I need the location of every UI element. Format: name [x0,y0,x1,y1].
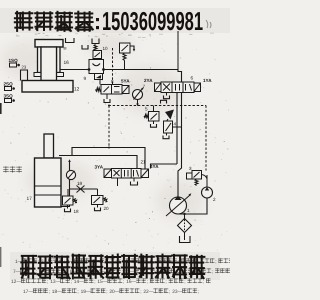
suction manifold [178,198,207,214]
check valve of 9 [95,74,103,80]
svg-text:18—: 18— [52,289,62,295]
filter suction line [184,233,186,241]
wire 5 pilot up [153,106,155,112]
wire ejector bottom port [61,161,70,207]
svg-text:;: ; [165,280,166,285]
valve 3 spring [195,179,198,186]
ad text top: lianxi dianhua [16,12,33,14]
wire jog down to valve 6 [178,70,182,83]
pump 2 [206,175,208,187]
svg-text:7—: 7— [13,269,21,275]
svg-text:10: 10 [103,46,109,51]
cylinder 16 right foot [57,73,64,77]
svg-text:;: ; [212,270,213,275]
stop block 23 [21,70,28,81]
svg-text:15036099981: 15036099981 [102,6,203,36]
svg-text:19—: 19— [81,289,91,295]
ad text bottom: company name [22,255,36,257]
valve 18 tank [67,205,69,209]
valve 6 drain tank [166,93,168,96]
valve 3 outlet hook [202,175,208,179]
wire 9 to valve 8 [99,80,101,85]
dashed pilot line horizontal [109,105,207,107]
svg-text:;: ; [106,290,107,295]
pump 1 variable [170,197,187,214]
ejector cylinder 17 body [35,158,62,207]
valve 21 left drain [117,178,119,186]
valve 6 body [161,82,194,93]
svg-text:8: 8 [111,79,114,84]
svg-text:1SQ: 1SQ [9,58,19,63]
cylinder 16 ram [41,47,57,81]
svg-text:2SQ: 2SQ [4,82,14,87]
filter [183,213,185,215]
svg-text:1YA: 1YA [203,78,212,83]
node main line right [102,68,105,71]
svg-text:17—: 17— [23,289,33,295]
svg-text:20: 20 [104,206,110,211]
svg-text:21: 21 [141,160,147,165]
node main line left [88,68,91,71]
svg-text:;: ; [169,290,170,295]
wire 11 to main [124,61,126,70]
valve 4 body [164,121,173,133]
valve 21 right solenoid [141,169,149,178]
svg-text:;: ; [71,280,72,285]
gauge 7 [133,90,143,100]
wire line1 to valve 21 [72,148,145,169]
svg-text:14—: 14— [74,279,84,285]
svg-text:23—: 23— [172,289,182,295]
svg-text:2YA: 2YA [144,78,153,83]
svg-text:4: 4 [174,122,177,127]
colon [96,18,99,21]
svg-text:15—: 15— [97,279,107,285]
valve 4 drain tank [166,133,168,136]
valve 8 spring [96,88,102,91]
valve 10 spring [94,45,97,51]
svg-text:16: 16 [64,60,70,66]
wire main press line [60,69,178,71]
svg-text:5YA: 5YA [121,79,130,84]
svg-text:16—: 16— [126,279,136,285]
svg-text:;: ; [77,290,78,295]
valve 11 spring [123,53,126,61]
svg-text:3: 3 [189,166,192,171]
valve 5 body [149,112,160,122]
svg-text:22—: 22— [143,289,153,295]
tank above valve 10 [92,39,99,44]
ejector rod [44,134,54,158]
valve 21 tank [133,178,135,182]
valve 3 pilot box [187,173,193,179]
svg-text:19: 19 [77,181,83,186]
svg-text:8I: 8I [64,47,67,51]
scan smudge right of phone [206,20,211,28]
valve 10 body [93,51,102,59]
valve 8 drain to tank [106,94,108,99]
valve 8 body [101,85,122,95]
platen 12 [22,81,73,93]
backpressure valve 20 [97,189,99,196]
svg-text:3YA: 3YA [95,165,104,170]
svg-text:23: 23 [22,65,27,70]
valve 5 spring [144,115,149,118]
svg-text:13—: 13— [50,279,60,285]
svg-text:12: 12 [74,87,80,93]
svg-text:5: 5 [145,107,148,112]
svg-text:9: 9 [84,76,87,81]
dashed pilot drop left [108,106,110,148]
dashed pilot drop right to valve 3 [205,106,207,171]
svg-text:6: 6 [191,76,194,81]
svg-text:12—: 12— [11,279,21,285]
gauge 7 stem [137,100,139,106]
valve 8 solenoid [122,86,129,94]
svg-text:;: ; [203,280,204,285]
valve 5 drain tank [153,121,155,124]
svg-text:;: ; [94,280,95,285]
valve 11 body [120,43,131,53]
svg-text:;: ; [198,290,199,295]
wire valve6 port A down [176,93,178,165]
label dingchugang [3,166,8,168]
wire line2 to valve 21 [59,156,137,169]
svg-text:;: ; [123,280,124,285]
wire branch throttle [70,188,98,190]
valve 6 left solenoid [155,83,162,92]
svg-text:20—: 20— [109,289,119,295]
drain tank left of valve 10 [82,45,88,49]
svg-text:;: ; [184,280,185,285]
tank on pilot line [161,100,167,103]
svg-text:4YA: 4YA [150,164,159,169]
svg-text:;: ; [47,280,48,285]
prefill valve 9 outer [89,60,104,74]
svg-text:18: 18 [74,209,80,214]
safety valve 18 [67,189,69,196]
wire valve6 port P down to pump 1 [178,93,182,197]
dashed pilot valve10 to valve8 [112,48,114,85]
cylinder 16 left wall [38,47,42,73]
wire branch to valve 21 [151,164,178,169]
gauge 19 [66,170,75,179]
prefill tank on cylinder [66,38,75,43]
throttle 18 cross [77,186,85,193]
valve 4 pilot cone [165,110,174,120]
svg-text:2: 2 [213,197,216,202]
wire valve4 to P line [173,126,182,128]
valve 6 right solenoid [194,83,201,92]
valve 3 body [192,171,202,180]
svg-text:;: ; [49,290,50,295]
svg-text:;: ; [147,280,148,285]
svg-text:1: 1 [187,208,190,213]
valve 21 body [112,169,142,179]
node pilot junction [108,105,110,107]
ejector piston [35,185,62,187]
valve 20 tank [97,205,99,208]
cylinder 16 left foot [34,73,41,77]
valve 21 left solenoid [104,169,112,178]
valve 11 drain hook [130,46,134,50]
cylinder 16 cap [35,40,63,48]
svg-text:7: 7 [143,84,146,89]
svg-text:3SQ: 3SQ [4,94,14,99]
cylinder 16 right wall [57,47,61,73]
wire riser to prefill tank [177,31,179,70]
svg-text:;: ; [140,290,141,295]
svg-text:;: ; [215,260,216,265]
svg-text:17: 17 [27,196,33,202]
